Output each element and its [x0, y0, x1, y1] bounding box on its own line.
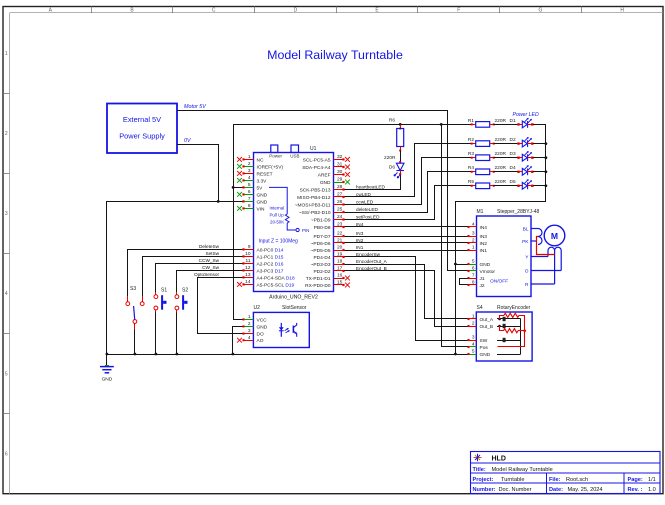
svg-text:GND: GND	[480, 262, 491, 268]
S4 pin 5 GND	[467, 349, 490, 358]
wire heartbeatLED U1 pin28 to D6	[344, 174, 401, 190]
svg-text:~MOSI-PB3-D11: ~MOSI-PB3-D11	[295, 202, 331, 208]
svg-text:A3-PC3 D17: A3-PC3 D17	[257, 268, 284, 274]
svg-text:File:: File:	[549, 477, 561, 483]
svg-text:H: H	[620, 8, 624, 14]
svg-text:Date:: Date:	[549, 487, 563, 493]
svg-text:IN3: IN3	[480, 234, 488, 240]
svg-text:R4: R4	[468, 165, 474, 171]
svg-text:cwLED: cwLED	[356, 192, 371, 197]
svg-text:1: 1	[472, 314, 475, 320]
svg-text:1: 1	[472, 245, 475, 251]
svg-text:HLD: HLD	[492, 456, 506, 463]
wire D4 cathode to rail	[536, 171, 546, 173]
M1 pin 3 IN3	[467, 231, 487, 240]
U1 pin 2 IOREF(+5V)	[237, 161, 283, 170]
svg-text:17: 17	[337, 266, 343, 272]
stepper driver M1 box	[477, 216, 532, 297]
M1 pin 6 Vmotor	[467, 266, 495, 275]
wire U2 GND to GND bus	[233, 327, 244, 355]
wire S2 to GND bus	[176, 313, 178, 355]
svg-text:12: 12	[245, 265, 251, 271]
wire SetSw from S3 to U1 pin10	[143, 257, 244, 297]
svg-text:Pos: Pos	[480, 345, 489, 351]
svg-text:U2: U2	[254, 305, 261, 311]
svg-text:Power: Power	[269, 153, 282, 158]
U1 pin 18 ~PD3-D3	[311, 259, 345, 268]
svg-text:Title:: Title:	[473, 467, 486, 473]
svg-text:1: 1	[248, 154, 251, 160]
svg-text:3: 3	[248, 168, 251, 174]
svg-text:A1-PC1 D15: A1-PC1 D15	[257, 254, 284, 260]
svg-text:D6: D6	[389, 164, 395, 170]
U1 pin 4 3.3V	[237, 175, 267, 184]
svg-text:~PB1-D9: ~PB1-D9	[311, 217, 331, 223]
svg-text:8: 8	[248, 203, 251, 209]
U1 pin 15 RX-PD0-D0	[305, 280, 350, 289]
svg-text:RESET: RESET	[257, 171, 273, 177]
svg-text:5: 5	[248, 182, 251, 188]
wire D3 cathode to rail	[536, 157, 546, 159]
U1 pin 24 ~PB1-D9	[311, 214, 345, 223]
svg-text:2: 2	[248, 321, 251, 327]
wire 5V to U1 pin5	[233, 187, 243, 189]
wire D5 cathode to rail	[536, 185, 546, 187]
node LED rail junctions	[545, 142, 548, 187]
S4 pin 1 Out_A	[467, 314, 493, 323]
svg-text:13: 13	[245, 272, 251, 278]
LED D5	[517, 179, 546, 189]
svg-text:220R: 220R	[495, 137, 507, 143]
svg-text:D2: D2	[510, 137, 516, 143]
U1 pin 28 SCK-PB5-D13	[300, 184, 345, 193]
svg-text:2: 2	[472, 321, 475, 327]
U1 pin 6 GND	[237, 189, 268, 198]
LED D3	[517, 151, 546, 161]
svg-text:SW: SW	[480, 338, 488, 344]
svg-text:2: 2	[248, 161, 251, 167]
svg-text:ON/OFF: ON/OFF	[490, 279, 508, 285]
svg-text:220R: 220R	[495, 179, 507, 185]
svg-text:PD4-D4: PD4-D4	[313, 255, 330, 261]
svg-text:220R: 220R	[495, 165, 507, 171]
svg-text:deleteLED: deleteLED	[356, 207, 379, 212]
U1 pin 25 ~SS/-PB2-D10	[299, 207, 345, 216]
svg-text:SCL-PC5-A5: SCL-PC5-A5	[303, 157, 331, 163]
svg-text:3: 3	[472, 231, 475, 237]
svg-text:220R: 220R	[495, 118, 507, 124]
svg-text:J2: J2	[480, 283, 485, 289]
svg-text:IN1: IN1	[356, 245, 364, 250]
svg-text:9: 9	[248, 244, 251, 250]
svg-text:NC: NC	[257, 157, 264, 163]
rotary encoder S4 box	[476, 312, 532, 361]
svg-text:EncoderSw: EncoderSw	[356, 252, 381, 257]
svg-text:3.3V: 3.3V	[257, 178, 268, 184]
svg-text:5: 5	[472, 349, 475, 355]
svg-text:TX-PD1-D1: TX-PD1-D1	[306, 276, 331, 282]
wire GND bus	[107, 354, 469, 356]
U2 pin 2 GND	[242, 321, 267, 330]
wire 0V to U1 pin7 GND	[218, 201, 243, 203]
switch S2 pushbutton	[175, 288, 188, 313]
svg-text:19: 19	[337, 252, 343, 258]
svg-text:D3: D3	[510, 151, 516, 157]
node 5V junction at pin5	[232, 186, 235, 189]
M1 pin 7 J1	[467, 273, 484, 282]
svg-text:GND: GND	[480, 352, 491, 358]
U2 pin 1 VCC	[242, 314, 267, 323]
svg-text:~PD3-D3: ~PD3-D3	[311, 262, 331, 268]
svg-text:4: 4	[248, 175, 251, 181]
svg-text:RX-PD0-D0: RX-PD0-D0	[305, 283, 331, 289]
resistor R3 220R	[468, 151, 519, 160]
svg-text:16: 16	[337, 273, 343, 279]
svg-text:May. 25, 2024: May. 25, 2024	[568, 487, 603, 493]
LED D6 heartbeat	[394, 161, 404, 178]
svg-text:Internal: Internal	[270, 206, 285, 211]
wire J1-J2 jumper	[460, 279, 469, 285]
M1 pin 2 IN2	[467, 238, 487, 247]
svg-text:S3: S3	[130, 286, 136, 292]
svg-text:14: 14	[245, 279, 251, 285]
svg-text:15: 15	[337, 280, 343, 286]
M1 pin 8 J2	[467, 280, 484, 289]
svg-text:28: 28	[337, 184, 343, 190]
node M1 GND junction	[454, 263, 457, 266]
svg-text:U1: U1	[310, 146, 317, 152]
svg-text:8: 8	[472, 280, 475, 286]
svg-text:A2-PC2 D16: A2-PC2 D16	[257, 261, 284, 267]
svg-text:AO: AO	[257, 338, 264, 344]
svg-text:~PD5-D5: ~PD5-D5	[311, 248, 331, 254]
svg-text:10: 10	[245, 251, 251, 257]
U1 pin 31 SDA-PC4-A4	[302, 162, 350, 171]
svg-text:M: M	[551, 231, 558, 241]
U1 pin 30 AREF	[318, 169, 350, 178]
U1 pin 5 5V	[242, 182, 263, 191]
svg-text:S2: S2	[182, 288, 188, 294]
svg-text:GND: GND	[320, 180, 331, 186]
wire IN1	[344, 250, 469, 252]
node 5V rail junction at R6	[399, 123, 402, 126]
U1 pin 26 ~MOSI-PB3-D11	[295, 199, 345, 208]
svg-text:PIN: PIN	[302, 228, 309, 233]
svg-text:R1: R1	[468, 118, 474, 124]
svg-text:6: 6	[248, 189, 251, 195]
S4 internal switch contacts	[497, 317, 521, 355]
svg-text:ccwLED: ccwLED	[356, 199, 374, 204]
U1 pin 20 ~PD5-D5	[311, 245, 345, 254]
svg-text:A0-PC0 D14: A0-PC0 D14	[257, 247, 284, 253]
power supply PS1 box	[107, 104, 177, 154]
svg-text:6: 6	[472, 266, 475, 272]
resistor R5 220R	[468, 179, 519, 188]
svg-text:IN1: IN1	[480, 248, 488, 254]
svg-text:F: F	[457, 8, 460, 14]
svg-text:~PD6-D6: ~PD6-D6	[311, 241, 331, 247]
svg-text:1: 1	[5, 51, 8, 57]
wire Motor 5V from supply to M1 Vmotor	[177, 111, 469, 271]
svg-text:O: O	[525, 268, 529, 274]
motor M of stepper 28BYJ-48	[531, 225, 565, 284]
U1 pin 8 VIN	[237, 203, 265, 212]
U1 pin 7 GND	[242, 196, 267, 205]
wire IN2	[344, 242, 469, 244]
svg-text:Number:: Number:	[473, 487, 496, 493]
svg-text:PD7-D7: PD7-D7	[313, 234, 330, 240]
svg-text:23: 23	[337, 222, 343, 228]
svg-text:R: R	[525, 282, 529, 288]
ground	[100, 366, 114, 383]
node GND bus junctions	[106, 353, 457, 356]
svg-text:220R: 220R	[495, 151, 507, 157]
node 0V junction at pin7	[217, 200, 220, 203]
M1 pin 4 IN4	[467, 222, 487, 231]
svg-text:SCK-PB5-D13: SCK-PB5-D13	[300, 187, 331, 193]
svg-text:CW_Sw: CW_Sw	[202, 265, 220, 270]
U2 opto interrupter symbol	[279, 323, 297, 337]
svg-text:PK: PK	[522, 239, 529, 245]
svg-text:21: 21	[337, 238, 343, 244]
svg-text:M1: M1	[477, 209, 484, 215]
svg-text:5V: 5V	[257, 185, 264, 191]
U1 pin 12 A3-PC3	[242, 265, 283, 274]
svg-text:Stepper_28BYJ-48: Stepper_28BYJ-48	[497, 209, 539, 215]
svg-text:PD2-D2: PD2-D2	[313, 269, 330, 275]
wire EncoderSw U1 pin19 to S4 SW	[344, 257, 469, 341]
switch S1 pushbutton	[154, 288, 167, 313]
title block	[471, 452, 661, 494]
svg-text:A4-PC4-SDA D18: A4-PC4-SDA D18	[257, 275, 295, 281]
svg-text:CCW_Sw: CCW_Sw	[199, 258, 220, 263]
svg-text:1/1: 1/1	[648, 477, 656, 483]
S4 pin 2 Out_B	[467, 321, 493, 330]
svg-text:6: 6	[5, 451, 8, 457]
svg-text:EncoderOut_B: EncoderOut_B	[356, 266, 387, 271]
svg-text:~SS/-PB2-D10: ~SS/-PB2-D10	[299, 210, 331, 216]
svg-text:4: 4	[248, 335, 251, 341]
svg-text:Out_B: Out_B	[480, 324, 494, 330]
svg-text:30: 30	[337, 169, 343, 175]
U2 pin 3 DO	[242, 328, 264, 337]
svg-text:IN3: IN3	[356, 231, 364, 236]
U1 pin 19 PD4-D4	[313, 252, 344, 261]
svg-text:VIN: VIN	[257, 206, 266, 212]
wire LED cathode rail to GND	[456, 125, 546, 355]
svg-text:Doc. Number: Doc. Number	[499, 487, 532, 493]
svg-text:SlotSensor: SlotSensor	[282, 305, 307, 311]
svg-text:24: 24	[337, 214, 343, 220]
wire CCW_Sw from S1 to U1 pin11	[156, 264, 244, 293]
wire red center tap of stepper	[537, 237, 555, 255]
U1 pin 21 ~PD6-D6	[311, 238, 345, 247]
svg-text:4: 4	[472, 342, 475, 348]
svg-text:S1: S1	[161, 288, 167, 294]
svg-text:Rev. :: Rev. :	[628, 487, 643, 493]
svg-text:5: 5	[472, 259, 475, 265]
wire IN4	[344, 226, 469, 228]
U1 pin 1 NC	[237, 154, 264, 163]
svg-text:Power Supply: Power Supply	[119, 132, 165, 141]
svg-text:R3: R3	[468, 151, 474, 157]
U1 pin 23 PB0-D8	[314, 222, 345, 231]
svg-text:BL: BL	[523, 226, 529, 232]
wire M1 GND to GND column	[455, 264, 468, 266]
svg-text:2: 2	[5, 131, 8, 137]
svg-text:20-50K: 20-50K	[270, 220, 284, 225]
svg-text:DO: DO	[257, 332, 264, 338]
svg-text:G: G	[539, 8, 543, 14]
svg-text:3: 3	[472, 335, 475, 341]
U1 pin 29 GND	[320, 177, 350, 186]
U1 pin 13 A4-PC4-SDA	[242, 272, 295, 281]
svg-text:External 5V: External 5V	[123, 115, 161, 124]
svg-text:3: 3	[248, 328, 251, 334]
svg-text:4: 4	[5, 291, 8, 297]
svg-text:J1: J1	[480, 276, 485, 282]
U2 pin 4 AO	[237, 335, 264, 344]
svg-text:25: 25	[337, 207, 343, 213]
svg-text:Root.sch: Root.sch	[566, 477, 588, 483]
svg-text:Page:: Page:	[628, 477, 643, 483]
svg-text:R2: R2	[468, 137, 474, 143]
S4 pin 4 Pos	[467, 342, 488, 351]
svg-text:SetSw: SetSw	[205, 251, 219, 256]
svg-text:26: 26	[337, 199, 343, 205]
wire DeleteSw from S3 to U1 pin9	[128, 250, 244, 297]
svg-text:S4: S4	[477, 305, 483, 311]
wire deleteLED U1 pin25 to R4	[344, 172, 472, 213]
svg-text:22: 22	[337, 231, 343, 237]
svg-text:PB0-D8: PB0-D8	[314, 225, 331, 231]
svg-text:RotaryEncoder: RotaryEncoder	[497, 305, 531, 311]
svg-text:GND: GND	[257, 199, 268, 205]
wire 5V column to U2 VCC	[234, 124, 244, 319]
svg-text:Project:: Project:	[473, 477, 494, 483]
svg-text:EncoderOut_A: EncoderOut_A	[356, 259, 388, 264]
wire OptoSensor from U1 pin13 to U2 DO	[198, 278, 244, 334]
wire 5V rail to S4 Pos	[442, 124, 469, 346]
svg-text:Arduino_UNO_REV2: Arduino_UNO_REV2	[269, 295, 318, 301]
svg-text:A5-PC5-SCL D19: A5-PC5-SCL D19	[257, 282, 295, 288]
wire D2 cathode to rail	[536, 143, 546, 145]
svg-text:Turntable: Turntable	[501, 477, 524, 483]
U1 pin 17 PD2-D2	[313, 266, 344, 275]
svg-text:1: 1	[248, 314, 251, 320]
wire ccwLED U1 pin26 to R3	[344, 158, 472, 205]
U1 pin 32 SCL-PC5-A5	[303, 154, 350, 163]
svg-text:Model Railway Turntable: Model Railway Turntable	[267, 48, 403, 62]
M1 pin 1 IN1	[467, 245, 487, 254]
U1 pin 14 A5-PC5-SCL	[237, 279, 294, 288]
U1 pin 16 TX-PD1-D1	[306, 273, 350, 282]
svg-text:OptoSensor: OptoSensor	[194, 272, 219, 277]
svg-text:IN4: IN4	[480, 225, 488, 231]
svg-text:D: D	[294, 8, 298, 14]
svg-text:MISO-PB4-D12: MISO-PB4-D12	[297, 195, 331, 201]
svg-text:IN2: IN2	[480, 241, 488, 247]
wire S1 to GND bus	[155, 313, 157, 355]
svg-text:R5: R5	[468, 179, 474, 185]
svg-text:7: 7	[248, 196, 251, 202]
U1 pin 11 A2-PC2	[242, 258, 283, 267]
wire 0V from supply	[177, 145, 219, 202]
svg-text:2: 2	[472, 238, 475, 244]
svg-text:IN2: IN2	[356, 238, 364, 243]
node 5V rail junction at Pos drop	[440, 123, 443, 126]
svg-text:Input Z = 100Meg: Input Z = 100Meg	[259, 239, 299, 245]
svg-text:18: 18	[337, 259, 343, 265]
wire 5V rail	[233, 124, 476, 126]
svg-text:GND: GND	[102, 377, 113, 383]
U1 pin 3 RESET	[237, 168, 272, 177]
svg-text:Power LED: Power LED	[513, 112, 539, 118]
U1 pin 27 MISO-PB4-D12	[297, 192, 344, 201]
slot sensor U2 box	[253, 312, 309, 347]
svg-text:setPosLED: setPosLED	[356, 214, 380, 219]
svg-text:Pull Up: Pull Up	[270, 213, 285, 218]
svg-text:4: 4	[472, 222, 475, 228]
op-amp U1 Arduino UNO symbol body	[254, 145, 334, 301]
LED D1	[517, 118, 546, 128]
wire EncoderOut_A U1 pin18 to S4 Out_A	[344, 265, 469, 319]
wire setPosLED U1 pin24 to R5	[344, 186, 472, 220]
switch S3 SPDT	[126, 286, 144, 329]
svg-text:D5: D5	[510, 179, 516, 185]
LED D2	[517, 137, 546, 147]
wire 0V to GND rail	[107, 202, 219, 366]
resistor R1 220R	[468, 118, 519, 127]
M1 pin 5 GND	[467, 259, 490, 268]
svg-text:USB: USB	[290, 153, 299, 158]
svg-text:GND: GND	[257, 324, 268, 330]
svg-text:5: 5	[5, 371, 8, 377]
resistor R4 220R	[468, 165, 519, 174]
svg-text:IOREF(+5V): IOREF(+5V)	[257, 164, 284, 170]
svg-text:Motor 5V: Motor 5V	[184, 104, 207, 110]
wire cwLED U1 pin27 to R2	[344, 144, 472, 197]
U1 pin 9 A0-PC0	[242, 244, 283, 253]
resistor R6 220R	[397, 124, 404, 161]
svg-text:3: 3	[5, 211, 8, 217]
svg-text:Vmotor: Vmotor	[480, 269, 496, 275]
svg-text:DeleteSw: DeleteSw	[199, 244, 220, 249]
U1 pin 10 A1-PC1	[242, 251, 283, 260]
svg-text:27: 27	[337, 192, 343, 198]
svg-text:heartbeatLED: heartbeatLED	[356, 184, 386, 189]
svg-text:7: 7	[472, 273, 475, 279]
wire IN3	[344, 236, 469, 238]
resistor R2 220R	[468, 137, 519, 146]
wire EncoderOut_B U1 pin17 to S4 Out_B	[344, 271, 469, 327]
svg-text:VCC: VCC	[257, 317, 268, 323]
svg-text:IN4: IN4	[356, 222, 364, 227]
svg-text:D1: D1	[510, 118, 516, 124]
svg-text:29: 29	[337, 177, 343, 183]
svg-text:1.0: 1.0	[648, 487, 656, 493]
svg-text:GND: GND	[257, 192, 268, 198]
svg-text:11: 11	[246, 258, 251, 264]
svg-text:20: 20	[337, 245, 343, 251]
wire CW_Sw from S2 to U1 pin12	[177, 271, 244, 293]
svg-text:32: 32	[337, 154, 343, 160]
svg-text:Out_A: Out_A	[480, 317, 494, 323]
svg-text:31: 31	[337, 162, 343, 168]
svg-text:SDA-PC4-A4: SDA-PC4-A4	[302, 165, 331, 171]
svg-text:R6: R6	[389, 117, 395, 123]
svg-text:220R: 220R	[384, 155, 396, 161]
